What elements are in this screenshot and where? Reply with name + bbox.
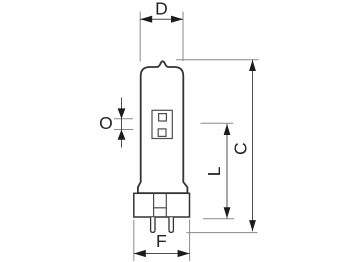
svg-text:D: D xyxy=(155,0,168,19)
svg-text:C: C xyxy=(231,142,251,155)
svg-text:L: L xyxy=(204,166,224,176)
svg-text:O: O xyxy=(99,113,113,133)
svg-text:F: F xyxy=(156,231,167,251)
